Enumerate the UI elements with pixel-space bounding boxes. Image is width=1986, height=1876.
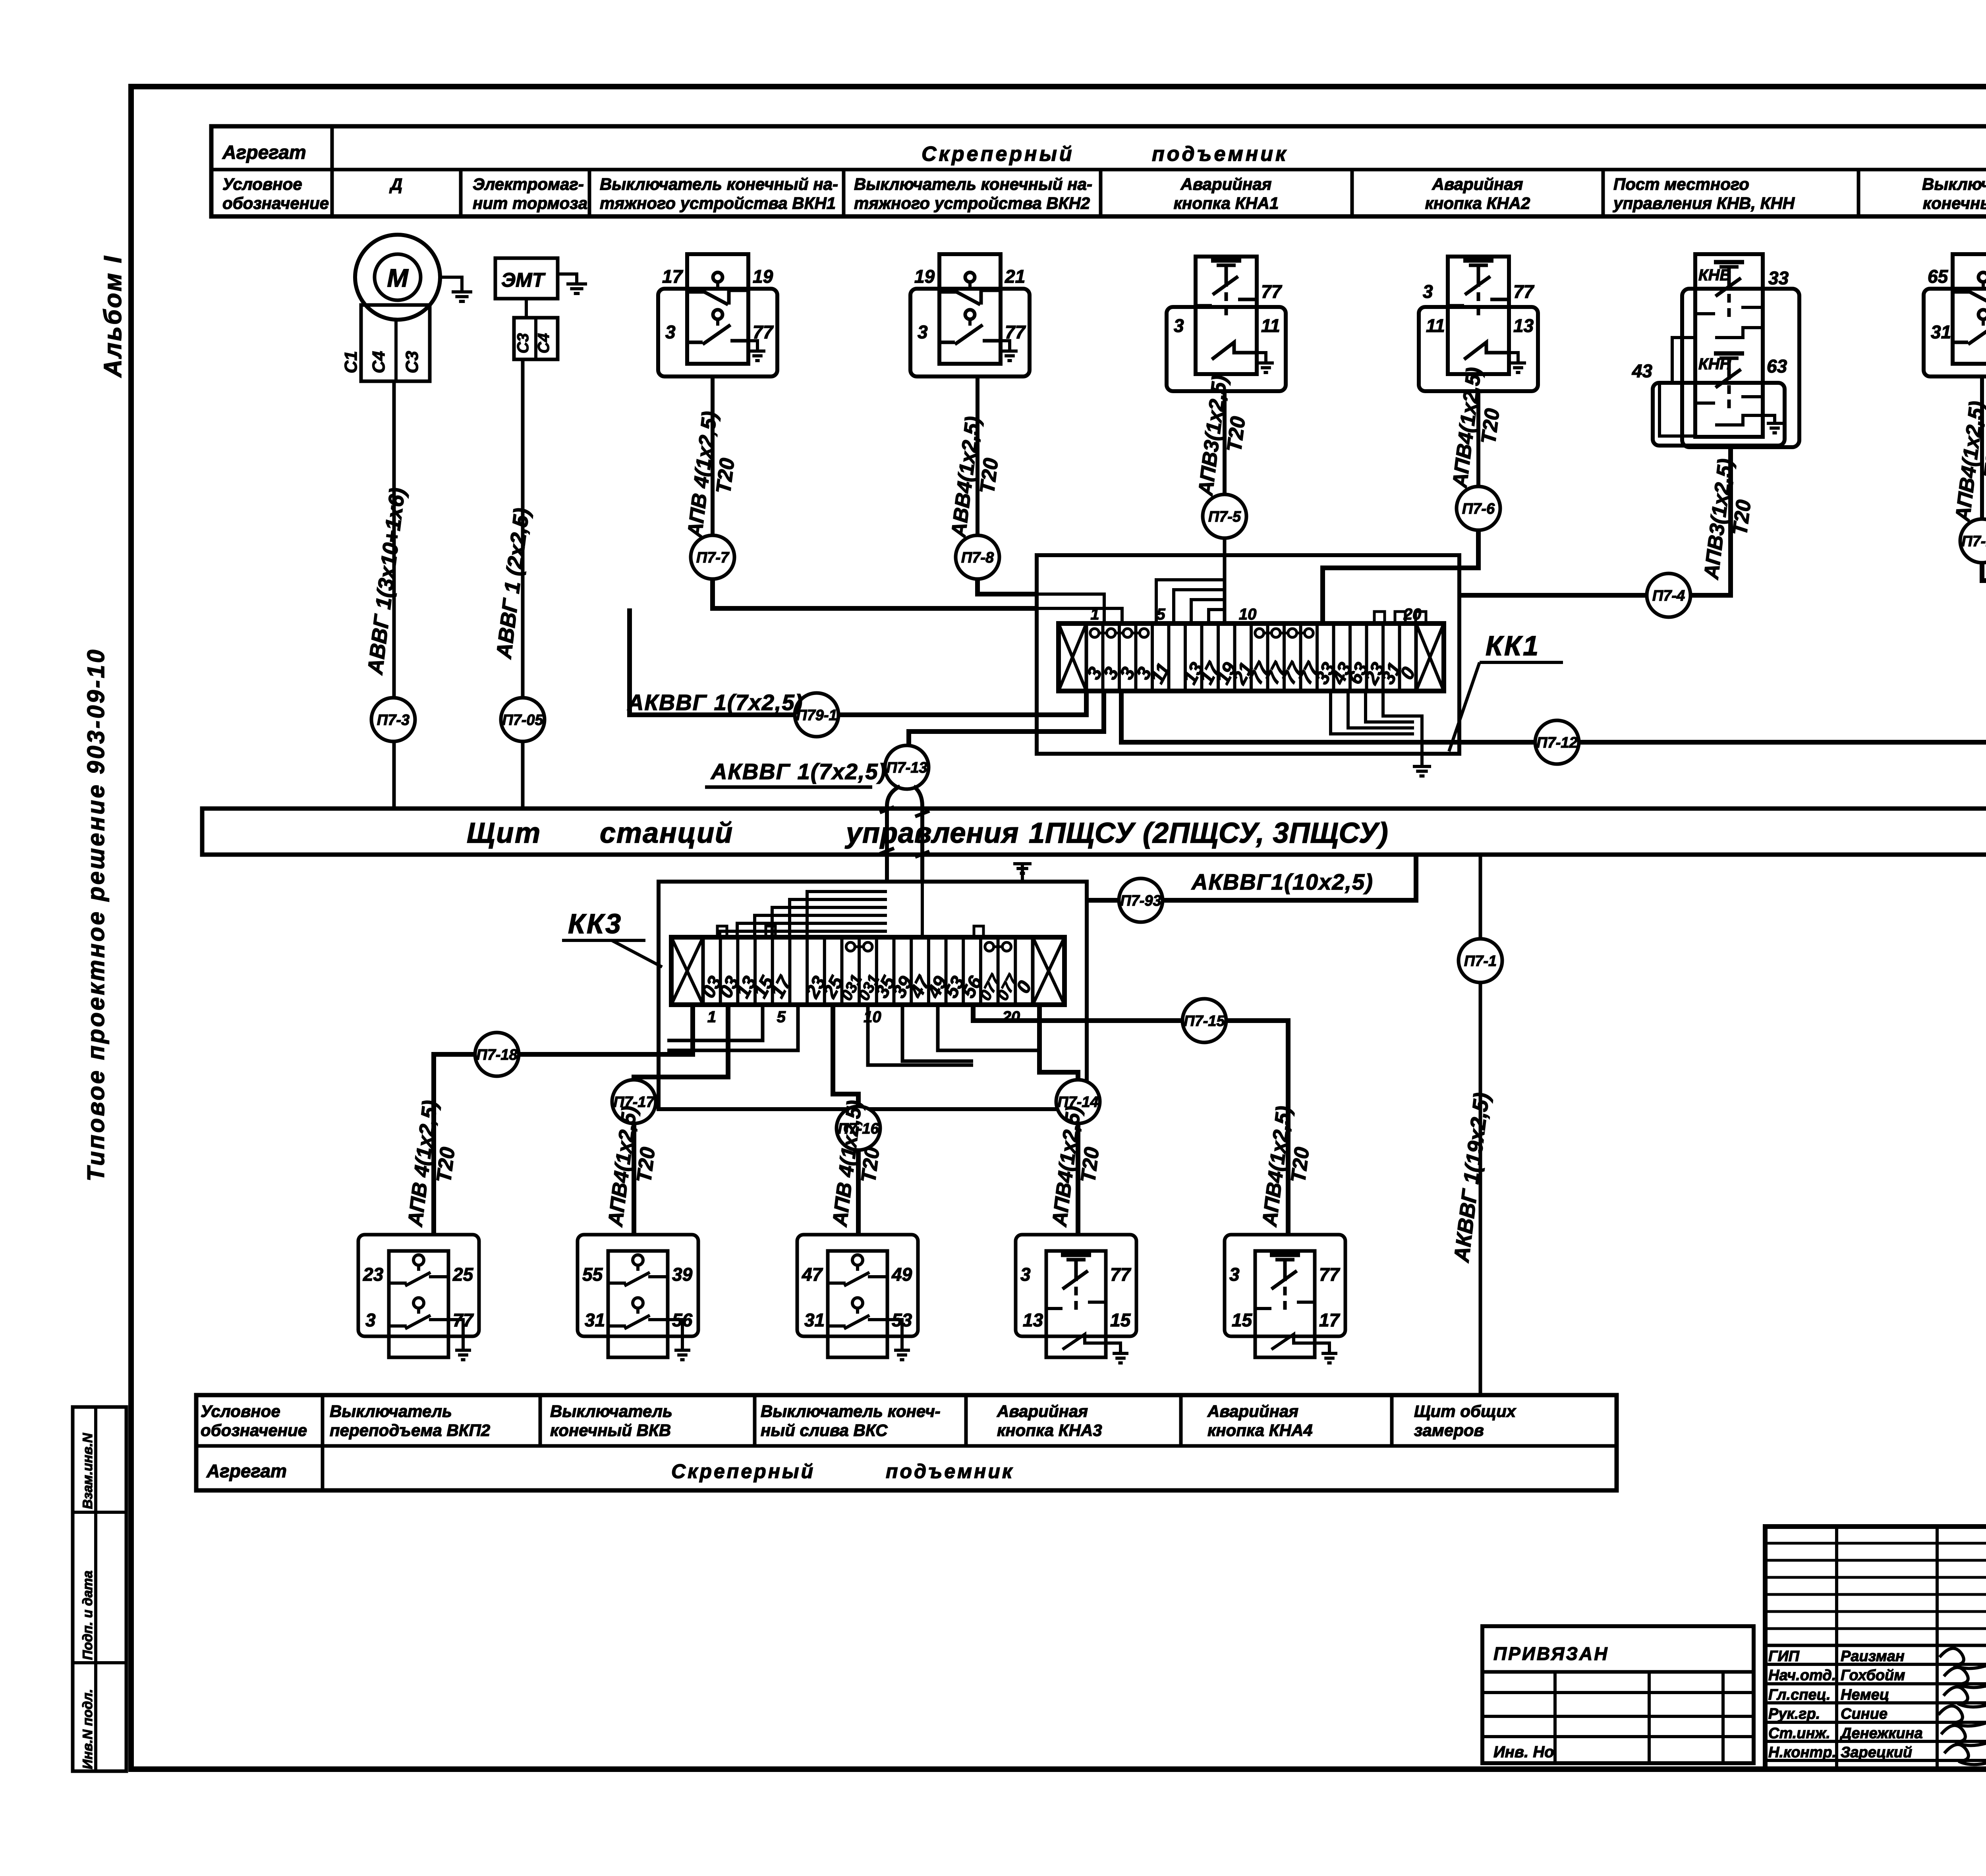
svg-text:3: 3 xyxy=(1423,281,1433,302)
svg-text:10: 10 xyxy=(1239,606,1257,623)
wire P7-10 to KK2 xyxy=(1982,563,1986,618)
svg-text:П7-12: П7-12 xyxy=(1536,734,1577,751)
limit switch VKP2 xyxy=(358,1235,479,1336)
svg-text:АКВВГ1(10х2,5): АКВВГ1(10х2,5) xyxy=(1191,869,1374,894)
wire KK3 to VKP2 xyxy=(434,1005,693,1235)
KK1 bottom wires to ground xyxy=(1331,691,1414,734)
wire P7-7 to KK1 xyxy=(713,579,1037,608)
node P7-4 xyxy=(1647,573,1690,617)
svg-text:Гл.спец.: Гл.спец. xyxy=(1768,1687,1831,1703)
svg-text:Щит: Щит xyxy=(467,817,541,849)
svg-text:Д: Д xyxy=(389,175,402,193)
svg-text:Зарецкий: Зарецкий xyxy=(1841,1744,1912,1761)
KK3 terminal strip xyxy=(671,937,1064,1005)
node P7-93 xyxy=(1119,878,1163,922)
wire KK3 to VKS xyxy=(833,1005,858,1235)
svg-text:Т20: Т20 xyxy=(976,457,1003,495)
svg-text:П7-8: П7-8 xyxy=(961,549,994,566)
KK1 bottom wire to P79-1 net xyxy=(630,608,1086,715)
svg-text:Инв. Но: Инв. Но xyxy=(1493,1743,1554,1761)
svg-text:13: 13 xyxy=(1513,315,1534,336)
svg-text:П7-18: П7-18 xyxy=(476,1046,518,1063)
top table grid xyxy=(211,126,1986,216)
svg-text:Выключатель: Выключатель xyxy=(1922,175,1986,193)
svg-text:Выключатель конеч-: Выключатель конеч- xyxy=(761,1402,941,1421)
svg-text:Н.контр.: Н.контр. xyxy=(1768,1744,1836,1761)
wire KK3 to KNA4 xyxy=(973,1005,1288,1235)
title block grid left xyxy=(1765,1527,1986,1769)
svg-text:55: 55 xyxy=(582,1264,603,1285)
svg-text:П7-05: П7-05 xyxy=(502,712,543,728)
svg-text:3: 3 xyxy=(365,1310,376,1330)
svg-text:Выключатель: Выключатель xyxy=(550,1402,672,1421)
svg-text:3: 3 xyxy=(1174,315,1184,336)
svg-text:обозначение: обозначение xyxy=(201,1421,307,1440)
node P7-1 xyxy=(1459,939,1502,982)
svg-text:77: 77 xyxy=(1261,281,1283,302)
svg-text:20: 20 xyxy=(1002,1008,1020,1026)
svg-text:65: 65 xyxy=(1928,266,1949,287)
bottom table grid xyxy=(196,1395,1617,1490)
wire P7-6 to KK1 xyxy=(1323,530,1478,623)
svg-text:Т20: Т20 xyxy=(1223,415,1250,453)
svg-text:3: 3 xyxy=(1020,1264,1031,1285)
svg-text:43: 43 xyxy=(1632,361,1653,381)
KK1 top wiring fan xyxy=(1156,580,1225,623)
svg-text:3: 3 xyxy=(665,322,676,342)
svg-text:Т20: Т20 xyxy=(1076,1146,1103,1184)
svg-text:кнопка КНА4: кнопка КНА4 xyxy=(1207,1421,1313,1440)
svg-text:Ст.инж.: Ст.инж. xyxy=(1768,1725,1830,1742)
EMT box xyxy=(495,258,558,299)
svg-text:ный слива ВКС: ный слива ВКС xyxy=(761,1421,888,1440)
node P7-17 xyxy=(612,1080,656,1123)
svg-text:31: 31 xyxy=(1931,322,1951,342)
svg-text:Агрегат: Агрегат xyxy=(222,142,306,163)
svg-text:Раизман: Раизман xyxy=(1841,1648,1905,1665)
wire KNA2 down xyxy=(1476,391,1480,486)
svg-text:Выключатель конечный на-: Выключатель конечный на- xyxy=(600,175,838,193)
node P7-14 xyxy=(1056,1080,1100,1123)
svg-text:Т20: Т20 xyxy=(1477,407,1504,445)
svg-text:Подп. и дата: Подп. и дата xyxy=(80,1571,95,1660)
KK3 top wiring fan xyxy=(720,931,887,937)
svg-text:Т20: Т20 xyxy=(632,1146,659,1184)
motor M circles xyxy=(355,235,440,320)
node P7-3 xyxy=(371,698,415,741)
svg-text:Скреперный: Скреперный xyxy=(671,1460,815,1482)
svg-text:подъемник: подъемник xyxy=(886,1460,1014,1482)
svg-text:П7-10: П7-10 xyxy=(1961,533,1986,550)
wire EMT to bus xyxy=(521,359,525,809)
svg-text:П7-15: П7-15 xyxy=(1184,1013,1225,1029)
EMT stem xyxy=(525,299,528,318)
svg-text:Аварийная: Аварийная xyxy=(997,1402,1088,1421)
svg-text:конечный ВКВ: конечный ВКВ xyxy=(550,1421,671,1440)
svg-text:станций: станций xyxy=(600,817,733,849)
control stations panel 1PSCHU xyxy=(202,809,1986,855)
node P79-1b xyxy=(795,693,838,737)
svg-text:5: 5 xyxy=(777,1008,786,1026)
KK3 extra bottom wires xyxy=(667,1005,763,1040)
svg-text:Рук.гр.: Рук.гр. xyxy=(1768,1706,1820,1722)
svg-text:19: 19 xyxy=(914,266,935,287)
wire VKN down xyxy=(1980,376,1984,519)
svg-text:Гохбойм: Гохбойм xyxy=(1841,1667,1905,1684)
svg-text:П7-7: П7-7 xyxy=(696,549,730,566)
emergency button KNA3 xyxy=(1016,1235,1136,1336)
svg-text:11: 11 xyxy=(1261,315,1280,336)
limit switch VKN xyxy=(1924,289,1986,376)
svg-text:Т20: Т20 xyxy=(712,457,739,495)
wire KNA1 down xyxy=(1223,391,1227,494)
svg-text:Т20: Т20 xyxy=(1287,1146,1314,1184)
svg-text:Альбом I: Альбом I xyxy=(99,255,127,378)
svg-text:КК1: КК1 xyxy=(1486,630,1540,661)
svg-text:переподъема ВКП2: переподъема ВКП2 xyxy=(330,1421,490,1440)
svg-text:кнопка КНА3: кнопка КНА3 xyxy=(997,1421,1102,1440)
node P7-8 xyxy=(956,535,999,579)
svg-text:тяжного устройства ВКН2: тяжного устройства ВКН2 xyxy=(854,194,1090,212)
svg-text:25: 25 xyxy=(452,1264,474,1285)
svg-text:31: 31 xyxy=(804,1310,825,1330)
KK3 mini terminals xyxy=(717,926,727,937)
node P7-6 xyxy=(1457,486,1500,530)
motor ground xyxy=(440,277,462,292)
svg-text:С3: С3 xyxy=(402,351,422,373)
node P7-10 xyxy=(1960,519,1986,563)
svg-text:Электромаг-: Электромаг- xyxy=(473,175,584,193)
svg-text:Агрегат: Агрегат xyxy=(206,1461,287,1481)
motor terminal box C4 C3 xyxy=(361,305,430,381)
svg-text:Аварийная: Аварийная xyxy=(1432,175,1523,193)
node P7-16 xyxy=(837,1106,880,1150)
svg-text:С4: С4 xyxy=(535,333,553,353)
svg-text:АКВВГ 1(7х2,5): АКВВГ 1(7х2,5) xyxy=(710,759,887,784)
wire KK3 to VKV xyxy=(634,1005,728,1235)
svg-text:КНВ: КНВ xyxy=(1698,266,1731,284)
svg-text:Т20: Т20 xyxy=(432,1146,459,1184)
svg-text:19: 19 xyxy=(753,266,773,287)
wire KK1 to KK2 shield (P7-12 net) xyxy=(1121,691,1986,742)
node P7-18 xyxy=(475,1033,519,1076)
KK1 outer box xyxy=(1037,555,1459,754)
emergency button KNA4 xyxy=(1225,1235,1345,1336)
svg-text:ПРИВЯЗАН: ПРИВЯЗАН xyxy=(1493,1643,1609,1664)
svg-text:Инв.N подл.: Инв.N подл. xyxy=(80,1689,95,1769)
svg-text:63: 63 xyxy=(1767,356,1787,376)
privyazan table xyxy=(1482,1626,1754,1763)
svg-text:Нач.отд.: Нач.отд. xyxy=(1768,1667,1836,1684)
svg-text:Т20: Т20 xyxy=(1728,498,1755,537)
svg-text:С3: С3 xyxy=(514,333,532,353)
svg-text:нит тормоза: нит тормоза xyxy=(473,194,587,212)
svg-text:77: 77 xyxy=(1110,1264,1132,1285)
svg-text:17: 17 xyxy=(662,266,684,287)
KK3 shield ground xyxy=(1021,864,1024,882)
svg-text:П7-3: П7-3 xyxy=(377,712,410,728)
wire KK3 to KNA3 xyxy=(1039,1005,1078,1235)
cable AKVVG1 10x2.5 line xyxy=(1087,855,1416,900)
svg-text:замеров: замеров xyxy=(1414,1421,1484,1440)
svg-text:15: 15 xyxy=(1232,1310,1253,1330)
svg-text:77: 77 xyxy=(1319,1264,1341,1285)
wire P7-8 to KK1 xyxy=(978,579,1037,594)
wire P7-1 net xyxy=(1479,855,1482,1395)
node P7-5 xyxy=(1203,494,1246,538)
KK3 outer box xyxy=(659,882,1087,1109)
svg-text:3: 3 xyxy=(918,322,928,342)
svg-text:1ПЩСУ (2ПЩСУ, 3ПЩСУ): 1ПЩСУ (2ПЩСУ, 3ПЩСУ) xyxy=(1029,817,1389,849)
emergency button KNA1 xyxy=(1167,307,1286,391)
svg-text:Условное: Условное xyxy=(222,175,302,193)
svg-text:33: 33 xyxy=(1768,268,1789,288)
svg-text:Пост местного: Пост местного xyxy=(1613,175,1749,193)
limit switch VKN1 xyxy=(658,289,777,376)
svg-text:Условное: Условное xyxy=(201,1402,280,1421)
svg-text:15: 15 xyxy=(1110,1310,1131,1330)
svg-text:П7-5: П7-5 xyxy=(1208,508,1241,525)
svg-text:Типовое проектное решение 9: Типовое проектное решение 903-09-10 xyxy=(83,648,109,1181)
wire VKN1 down xyxy=(711,376,715,535)
svg-text:конечный ВКН: конечный ВКН xyxy=(1923,194,1986,212)
left margin stamp boxes xyxy=(73,1407,126,1771)
emergency button KNA2 xyxy=(1419,307,1538,391)
svg-text:П7-4: П7-4 xyxy=(1652,587,1685,604)
svg-text:Аварийная: Аварийная xyxy=(1207,1402,1298,1421)
svg-text:обозначение: обозначение xyxy=(222,194,329,212)
svg-text:39: 39 xyxy=(672,1264,693,1285)
svg-text:47: 47 xyxy=(802,1264,823,1285)
KK1 bottom wire to P7-13 net xyxy=(909,691,1104,745)
EMT terminal box C3 C4 xyxy=(514,318,558,359)
svg-text:кнопка КНА2: кнопка КНА2 xyxy=(1425,194,1530,212)
svg-text:Немец: Немец xyxy=(1841,1687,1889,1703)
svg-text:П7-6: П7-6 xyxy=(1462,500,1495,517)
svg-text:КК3: КК3 xyxy=(568,908,622,939)
wire post down to P7-4 line xyxy=(1459,447,1731,595)
svg-text:1: 1 xyxy=(707,1008,716,1026)
node P7-13b xyxy=(885,745,929,789)
svg-text:49: 49 xyxy=(891,1264,912,1285)
svg-text:С4: С4 xyxy=(369,351,388,373)
P7-13 split wires through panel xyxy=(887,786,900,882)
svg-text:тяжного устройства ВКН1: тяжного устройства ВКН1 xyxy=(600,194,836,212)
svg-text:Щит общих: Щит общих xyxy=(1414,1402,1517,1421)
svg-text:Синие: Синие xyxy=(1841,1706,1887,1722)
svg-text:23: 23 xyxy=(363,1264,384,1285)
svg-text:П7-1: П7-1 xyxy=(1464,953,1497,969)
svg-text:П7-13: П7-13 xyxy=(886,759,927,776)
svg-text:М: М xyxy=(387,264,409,292)
svg-text:3: 3 xyxy=(1229,1264,1240,1285)
wire P7-5 to KK1 xyxy=(1223,538,1227,623)
KK1 mini terminals xyxy=(1374,612,1385,623)
svg-text:ГИП: ГИП xyxy=(1768,1648,1800,1665)
bus break marks xyxy=(880,807,894,854)
svg-text:Денежкина: Денежкина xyxy=(1839,1725,1923,1742)
KK1 terminal strip xyxy=(1059,623,1444,691)
node P7-05 xyxy=(501,698,545,741)
svg-text:ЭМТ: ЭМТ xyxy=(501,269,546,291)
limit switch VKV xyxy=(578,1235,698,1336)
svg-text:Т20: Т20 xyxy=(857,1146,884,1184)
node P7-7 xyxy=(691,535,734,579)
svg-text:Выключатель: Выключатель xyxy=(330,1402,452,1421)
svg-text:77: 77 xyxy=(1513,281,1535,302)
svg-text:подъемник: подъемник xyxy=(1152,143,1288,166)
wire motor to bus xyxy=(392,381,396,809)
svg-text:13: 13 xyxy=(1023,1310,1043,1330)
svg-text:С1: С1 xyxy=(341,351,361,373)
svg-text:управления КНВ, КНН: управления КНВ, КНН xyxy=(1613,194,1795,212)
EMT ground xyxy=(558,274,577,284)
svg-text:АКВВГ 1(7х2,5): АКВВГ 1(7х2,5) xyxy=(627,690,803,715)
local control post KNV/KNN xyxy=(1682,289,1799,447)
wire VKN2 down xyxy=(976,376,979,535)
svg-text:Аварийная: Аварийная xyxy=(1180,175,1272,193)
svg-text:П7-93: П7-93 xyxy=(1120,892,1161,909)
svg-text:Скреперный: Скреперный xyxy=(922,143,1074,166)
svg-text:Выключатель конечный на-: Выключатель конечный на- xyxy=(854,175,1092,193)
svg-text:31: 31 xyxy=(585,1310,605,1330)
svg-text:кнопка КНА1: кнопка КНА1 xyxy=(1174,194,1279,212)
svg-text:управления: управления xyxy=(845,817,1019,849)
node P7-15 xyxy=(1182,999,1226,1042)
node P7-12 xyxy=(1535,720,1579,764)
svg-text:17: 17 xyxy=(1319,1310,1341,1330)
svg-text:Взам.инв.N: Взам.инв.N xyxy=(80,1432,95,1509)
limit switch VKN2 xyxy=(910,289,1030,376)
limit switch VKS xyxy=(797,1235,918,1336)
svg-text:21: 21 xyxy=(1005,266,1025,287)
svg-text:11: 11 xyxy=(1426,315,1445,336)
